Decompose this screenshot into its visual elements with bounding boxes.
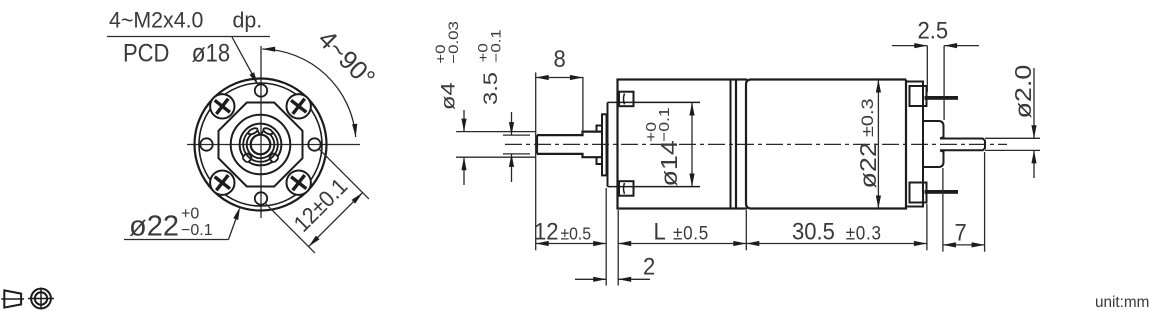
shaft circle Ø4 [251,135,271,155]
label Ø14 +0 -0.1 [643,107,682,186]
Ø22 underline [124,239,229,241]
arc dimension 4~90 [262,49,356,137]
svg-text:30.5±0.3: 30.5±0.3 [792,217,882,244]
motor can [746,80,906,209]
M2 hole left [200,138,212,150]
svg-text:ø14: ø14 [657,140,683,186]
leader line to M2 hole [232,37,256,81]
label underline [107,36,270,38]
projection symbol cone centerline [1,298,24,300]
dim 12±0.1 line [309,193,363,247]
dim 2.5 ext right [943,46,945,120]
screw boss top [619,92,634,107]
e-clip retaining ring [242,127,279,163]
brush cap bulge [923,121,944,167]
terminal block bottom [910,183,927,203]
terminal prong bottom [925,190,959,194]
svg-text:−0.1: −0.1 [489,29,504,62]
centerline horizontal front view [187,144,360,146]
dim Ø2.0 arrow top [1033,68,1035,138]
dim 8 ext right [582,77,584,130]
screw bottom-right [285,169,312,196]
svg-text:+0: +0 [181,206,199,223]
Ø14 lower edge/ext line [608,186,701,188]
flange outer circle Ø22 [195,79,327,211]
terminal prong top [925,96,959,100]
svg-text:−0.1: −0.1 [656,107,673,142]
dim Ø4 ext bottom [456,156,536,158]
label 4~90 [312,25,380,93]
Ø22 leader arrow [233,207,240,220]
gearbox rear joint line [730,80,732,209]
dim Ø14 line [691,103,693,187]
gearbox body [618,80,737,209]
svg-text:7: 7 [955,218,967,245]
dim 2.5 line left [892,45,927,47]
svg-text:ø22: ø22 [856,142,882,188]
dim 12±0.1 arrow upper [352,193,363,204]
dim L±0.5 line [618,243,746,245]
dim Ø4 arrow line bottom [463,157,465,185]
motor end cap [906,82,923,207]
label 8 [554,45,566,72]
octagonal boss Ø14 [219,103,303,187]
M2 hole right [308,138,320,150]
dim 2.5 line right [944,45,979,47]
dim Ø22 line [877,80,879,209]
label PCD Ø18 [123,39,230,68]
dim 30.5±0.3 line [746,243,927,245]
flange chamfer ring circle [199,83,322,206]
projection symbol cone [4,290,21,307]
svg-text:12±0.5: 12±0.5 [534,217,591,244]
centerline side view [505,143,1007,145]
dim 3.5 ext top [503,134,530,136]
label 12±0.1 [288,173,352,237]
boss circle Ø10 [231,115,291,175]
label 12±0.5 [534,217,591,244]
label L±0.5 [654,217,709,244]
svg-text:ø4: ø4 [438,82,459,110]
svg-text:−0.03: −0.03 [447,21,462,64]
svg-text:PCD: PCD [123,39,169,67]
ext E3 motor front [745,210,747,250]
joint band bottom edge [736,207,747,209]
dim 12±0.5 line [536,243,607,245]
shaft hub ring [597,126,603,165]
svg-text:unit:mm: unit:mm [1095,294,1149,311]
label 30.5±0.3 [792,217,882,244]
ext E2 flange face [605,188,607,286]
arc arrow top [262,47,275,52]
label Ø2.0 [1011,65,1037,119]
projection symbol circles [31,289,51,309]
dim Ø4 arrow line top [463,110,465,132]
screw boss bottom slot [624,183,625,194]
svg-text:L±0.5: L±0.5 [654,217,709,244]
dim 12±0.1 arrow lower [309,236,320,247]
flange plate Ø14 left edge [607,102,609,186]
svg-text:dp.: dp. [233,7,263,33]
screw boss top slot [624,94,625,105]
svg-text:8: 8 [554,45,566,72]
M2 hole top [255,84,267,96]
label 2 [643,253,655,280]
screw top-left [209,93,236,120]
ext 7 left [942,168,944,252]
svg-text:2: 2 [643,253,655,280]
dim 7 line [943,244,985,246]
dim 2 right arrow [618,278,650,280]
label 3.5 +0 -0.1 [476,29,504,105]
svg-text:−0.1: −0.1 [181,222,213,239]
Ø14 upper edge/ext line [608,101,701,103]
screw boss bottom [619,181,634,196]
boss disc Ø10 [602,114,607,175]
dim 3.5 ext bottom [503,153,530,155]
ext E4 block face [926,204,928,250]
dim 3.5 arrow line top [511,112,513,135]
svg-text:ø2.0: ø2.0 [1011,65,1037,119]
output shaft [537,132,602,158]
terminal block top [910,86,927,106]
label 7 [955,218,967,245]
dim Ø2.0 arrow bottom [1033,150,1035,178]
ext E2b gearbox face [617,210,619,286]
projection symbol crosshair [28,298,54,300]
svg-text:ø22: ø22 [129,211,179,243]
svg-text:±0.3: ±0.3 [857,98,876,137]
rear shaft Ø2 [940,139,985,151]
dim 8 ext left (long E1) [535,72,537,250]
dim Ø2.0 ext top [985,137,1040,139]
dim 2 left arrow [575,278,606,280]
label 2.5 [918,16,949,43]
dim 3.5 arrow line bottom [511,154,513,182]
M2 hole bottom [255,192,267,204]
dim Ø4 ext top [456,131,536,133]
screw bottom-left [209,169,236,196]
dim 12±0.1 ext line B [319,149,369,199]
leader arrow M2 [250,72,259,85]
screw top-right [285,93,312,120]
dim Ø2.0 ext bottom [985,149,1040,151]
svg-text:4~M2x4.0: 4~M2x4.0 [109,7,203,33]
dim 12±0.1 ext line A [265,203,315,253]
svg-text:4~90°: 4~90° [312,25,380,93]
arc arrow right [352,124,357,137]
bearing circle Ø7 [240,124,282,166]
svg-text:2.5: 2.5 [918,16,949,43]
dim 2.5 ext left [926,46,928,92]
label Ø4 +0 -0.03 [434,21,462,110]
svg-text:3.5: 3.5 [480,72,501,105]
label 4~M2x4.0 dp. [109,7,262,33]
ext 7 right [984,152,986,252]
label Ø22 ±0.3 [856,98,882,188]
Ø22 leader [229,213,239,240]
svg-text:ø18: ø18 [192,39,230,68]
joint band top edge [736,78,747,80]
dim 8 line [536,77,583,79]
centerline vertical front view [260,46,262,218]
